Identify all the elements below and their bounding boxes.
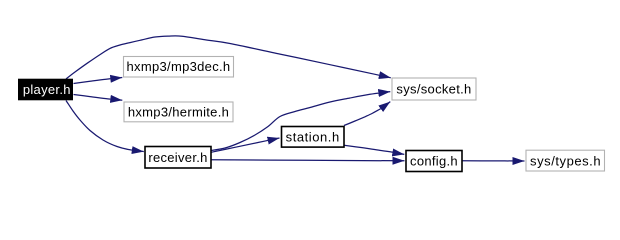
node hxmp3/hermite.h [124, 102, 233, 122]
wire player.h to sys/socket.h [66, 36, 391, 79]
wire receiver.h to sys/socket.h [211, 92, 390, 151]
svg-text:hxmp3/hermite.h: hxmp3/hermite.h [128, 105, 229, 120]
node player.h [18, 79, 73, 101]
wire receiver.h to station.h [211, 138, 280, 152]
node receiver.h [145, 147, 211, 169]
svg-text:sys/socket.h: sys/socket.h [396, 82, 471, 97]
wire station.h to config.h [344, 145, 404, 154]
node hxmp3/mp3dec.h [124, 57, 234, 78]
wire config.h to sys/types.h [462, 160, 525, 162]
svg-text:sys/types.h: sys/types.h [530, 153, 601, 168]
svg-text:config.h: config.h [410, 154, 458, 169]
svg-text:receiver.h: receiver.h [148, 150, 207, 165]
svg-text:hxmp3/mp3dec.h: hxmp3/mp3dec.h [127, 59, 231, 74]
node sys/socket.h [392, 78, 476, 100]
wire receiver.h to config.h [211, 160, 405, 161]
node sys/types.h [526, 150, 605, 171]
node config.h [406, 151, 462, 172]
svg-text:player.h: player.h [23, 82, 71, 97]
wire player.h to receiver.h [66, 101, 144, 152]
node station.h [282, 127, 345, 148]
wire player.h to hxmp3/hermite.h [74, 95, 123, 101]
wire player.h to hxmp3/mp3dec.h [74, 78, 123, 84]
svg-text:station.h: station.h [286, 129, 340, 144]
wire station.h to sys/socket.h [344, 102, 390, 126]
